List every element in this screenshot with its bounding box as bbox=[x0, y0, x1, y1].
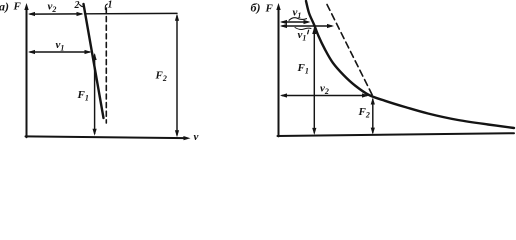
hyperbolic curve (right) bbox=[306, 1, 514, 128]
arrow F2 (left, vertical double-headed) bbox=[176, 16, 178, 135]
arrow v2 (right, double-headed) bbox=[282, 95, 367, 97]
svg-text:v1: v1 bbox=[298, 29, 307, 43]
svg-text:F1: F1 bbox=[77, 89, 89, 103]
arrow v1 (left, double-headed) bbox=[30, 51, 90, 53]
right y-axis arrowhead bbox=[276, 3, 280, 10]
svg-text:v2: v2 bbox=[320, 83, 329, 97]
svg-text:v1: v1 bbox=[56, 39, 65, 53]
dashed line 1 bbox=[105, 8, 107, 123]
left y-axis bbox=[26, 8, 28, 137]
left x-axis bbox=[26, 136, 186, 138]
svg-text:F: F bbox=[265, 3, 274, 15]
line 2 (characteristic) bbox=[84, 4, 104, 118]
left y-axis arrowhead bbox=[24, 3, 28, 10]
svg-text:б): б) bbox=[251, 1, 261, 15]
svg-text:v1: v1 bbox=[293, 7, 302, 21]
arrow v1' (right, double-headed) bbox=[282, 25, 332, 27]
right x-axis bbox=[278, 133, 515, 136]
svg-text:F: F bbox=[13, 1, 22, 13]
svg-text:1: 1 bbox=[108, 0, 113, 11]
svg-text:v2: v2 bbox=[48, 1, 57, 15]
arrow v2 (left, double-headed) bbox=[30, 13, 82, 15]
top level line F2 bbox=[87, 12, 178, 14]
leader from 2 to line bbox=[80, 5, 85, 7]
svg-text:F2: F2 bbox=[358, 106, 370, 120]
left x-axis arrowhead bbox=[183, 136, 190, 140]
svg-text:2: 2 bbox=[74, 0, 80, 11]
svg-text:F1: F1 bbox=[297, 62, 309, 76]
svg-text:а): а) bbox=[0, 0, 9, 14]
arrow F2 (right, vertical double-headed) bbox=[372, 100, 374, 133]
brace over v1 arrow bbox=[289, 18, 307, 21]
dashed tangent line (right) bbox=[327, 5, 373, 96]
brace under v1' arrow bbox=[295, 28, 311, 30]
svg-text:v: v bbox=[194, 131, 199, 143]
right y-axis bbox=[278, 8, 280, 136]
arrow F1 (right, vertical double-headed) bbox=[313, 29, 315, 133]
leader from 1 to dashed line bbox=[105, 4, 107, 10]
prime mark of v1' bbox=[308, 30, 309, 34]
arrow F1 (left, vertical double-headed) bbox=[94, 55, 96, 134]
arrow v1 (right, double-headed) bbox=[282, 21, 308, 23]
svg-text:F2: F2 bbox=[155, 70, 167, 84]
